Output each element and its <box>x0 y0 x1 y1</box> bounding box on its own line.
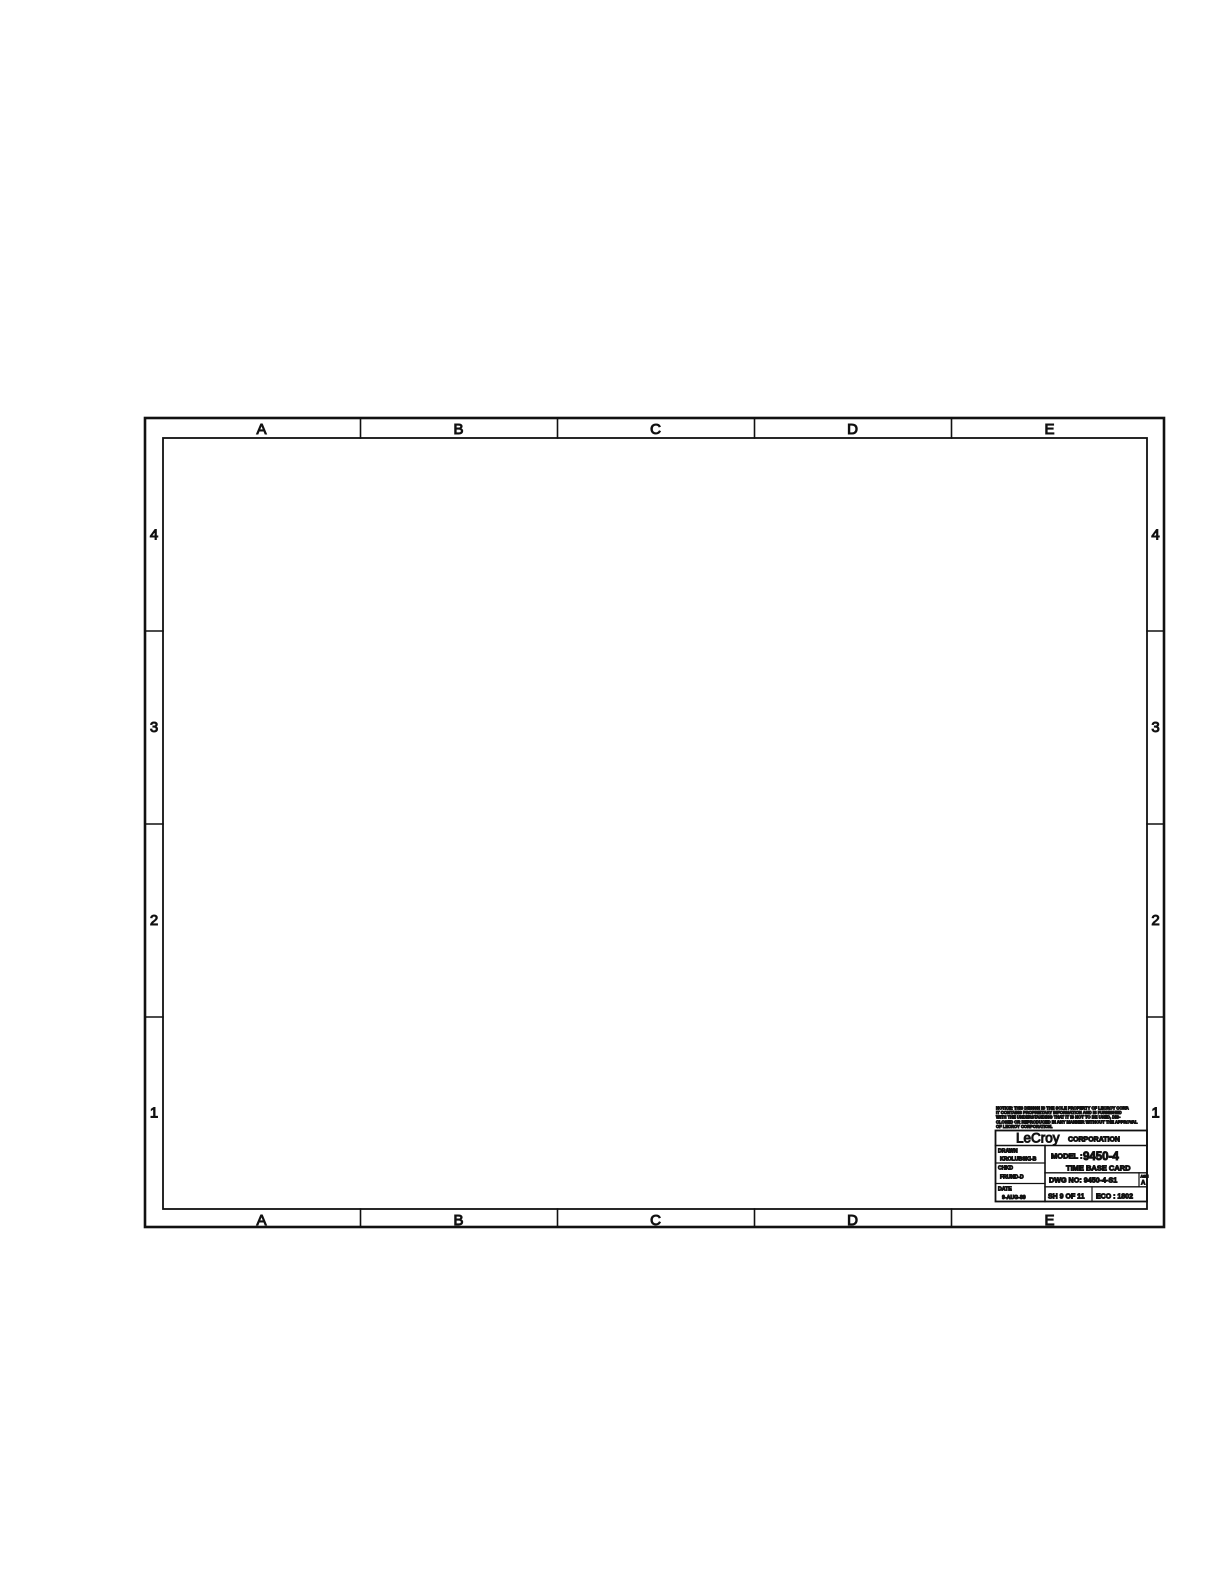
svg-text:A: A <box>1141 1181 1146 1187</box>
svg-text:E: E <box>1044 421 1054 438</box>
svg-text:9-AUG-89: 9-AUG-89 <box>1002 1195 1026 1201</box>
svg-text:ASM: ASM <box>1141 1175 1149 1179</box>
svg-text:DATE: DATE <box>998 1187 1012 1193</box>
svg-text:4: 4 <box>150 526 158 543</box>
svg-text:B: B <box>453 1212 463 1229</box>
svg-text:MODEL :: MODEL : <box>1051 1152 1083 1161</box>
svg-text:B: B <box>453 421 463 438</box>
svg-text:1: 1 <box>1151 1105 1159 1122</box>
svg-text:OF LECROY CORPORATION.: OF LECROY CORPORATION. <box>996 1124 1052 1129</box>
svg-text:D: D <box>847 421 858 438</box>
svg-text:DWG NO: 9450-4-S1: DWG NO: 9450-4-S1 <box>1049 1176 1117 1185</box>
svg-text:1: 1 <box>150 1105 158 1122</box>
svg-text:CHKD: CHKD <box>998 1166 1013 1172</box>
svg-text:KROLUBSKI-B: KROLUBSKI-B <box>1000 1157 1037 1163</box>
svg-text:E: E <box>1044 1212 1054 1229</box>
svg-text:2: 2 <box>150 912 158 929</box>
svg-text:LeCroy: LeCroy <box>1016 1131 1060 1146</box>
svg-text:SH 9 OF 11: SH 9 OF 11 <box>1048 1194 1085 1201</box>
svg-text:TIME BASE CARD: TIME BASE CARD <box>1066 1163 1131 1172</box>
svg-text:ECO : 1802: ECO : 1802 <box>1096 1194 1133 1201</box>
svg-text:3: 3 <box>1151 719 1159 736</box>
svg-text:4: 4 <box>1151 526 1159 543</box>
svg-text:C: C <box>650 421 661 438</box>
svg-text:C: C <box>650 1212 661 1229</box>
svg-text:9450-4: 9450-4 <box>1083 1151 1119 1163</box>
svg-text:FRUND-D: FRUND-D <box>1000 1175 1024 1181</box>
svg-text:A: A <box>256 421 266 438</box>
svg-text:CORPORATION: CORPORATION <box>1068 1137 1120 1144</box>
svg-text:D: D <box>847 1212 858 1229</box>
svg-text:DRAWN: DRAWN <box>998 1149 1018 1155</box>
svg-text:2: 2 <box>1151 912 1159 929</box>
svg-text:A: A <box>256 1212 266 1229</box>
svg-text:3: 3 <box>150 719 158 736</box>
